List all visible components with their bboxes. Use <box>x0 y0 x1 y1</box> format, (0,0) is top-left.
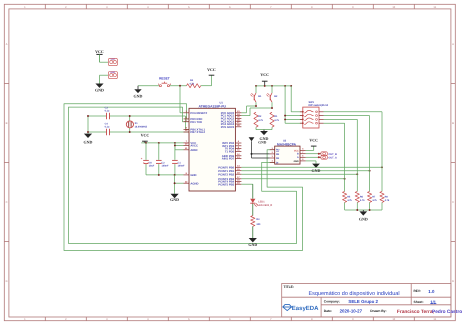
svg-text:OUT_A: OUT_A <box>328 157 337 160</box>
svg-text:PCINT5 PB5: PCINT5 PB5 <box>218 183 234 186</box>
svg-text:B: B <box>6 122 8 125</box>
svg-text:GND: GND <box>95 87 104 92</box>
svg-text:RESET: RESET <box>159 76 170 80</box>
svg-text:REV:: REV: <box>414 289 421 293</box>
svg-text:4.7k: 4.7k <box>274 119 279 122</box>
svg-text:VCC: VCC <box>309 138 318 143</box>
svg-text:GND: GND <box>258 141 266 145</box>
svg-text:T1 PD5: T1 PD5 <box>225 150 235 153</box>
svg-text:2020-10-27: 2020-10-27 <box>340 309 363 314</box>
svg-text:D: D <box>452 280 454 283</box>
svg-text:A: A <box>452 43 454 46</box>
svg-text:100nF: 100nF <box>162 165 169 168</box>
svg-text:VCC: VCC <box>95 49 104 54</box>
svg-text:C: C <box>6 201 8 204</box>
svg-text:EasyEDA: EasyEDA <box>292 305 319 312</box>
svg-text:4.7k: 4.7k <box>189 82 194 85</box>
svg-text:GND: GND <box>84 140 93 145</box>
svg-text:4.7k: 4.7k <box>360 199 365 202</box>
svg-text:16.000MHZ: 16.000MHZ <box>135 126 148 129</box>
svg-text:DI: DI <box>276 161 279 164</box>
svg-text:VCC: VCC <box>110 58 115 61</box>
svg-text:ATMEGA328P-PU: ATMEGA328P-PU <box>198 104 226 108</box>
svg-text:GND: GND <box>110 71 115 74</box>
svg-text:Date:: Date: <box>324 309 332 313</box>
svg-text:100nF: 100nF <box>178 165 185 168</box>
svg-text:Sheet:: Sheet: <box>414 300 424 304</box>
svg-text:B: B <box>452 122 454 125</box>
svg-text:PC6 RESET#: PC6 RESET# <box>190 112 207 115</box>
svg-text:PB7 XTAL2: PB7 XTAL2 <box>190 131 205 134</box>
svg-text:Company:: Company: <box>324 299 340 303</box>
svg-text:4.7k: 4.7k <box>372 199 377 202</box>
svg-text:GND: GND <box>170 197 179 202</box>
svg-text:LED-0603_R: LED-0603_R <box>258 204 273 207</box>
svg-text:VCC: VCC <box>207 67 216 72</box>
svg-text:DIP switch(ID-04: DIP switch(ID-04 <box>309 104 329 107</box>
svg-text:PD1 TXD: PD1 TXD <box>190 121 202 124</box>
svg-text:4.7k: 4.7k <box>258 119 263 122</box>
svg-text:GND: GND <box>190 174 196 177</box>
svg-text:D: D <box>6 280 8 283</box>
svg-text:A: A <box>6 43 8 46</box>
svg-text:SELE Grupo 2: SELE Grupo 2 <box>348 299 378 304</box>
svg-text:OUT_B: OUT_B <box>328 153 337 156</box>
svg-text:RE: RE <box>276 153 280 156</box>
svg-text:PC5 ADC5: PC5 ADC5 <box>221 126 235 129</box>
svg-text:300: 300 <box>256 223 261 226</box>
svg-text:GND: GND <box>359 217 368 222</box>
svg-text:AREF: AREF <box>190 149 198 152</box>
svg-text:AVCC: AVCC <box>190 144 198 147</box>
svg-text:GND: GND <box>134 94 143 99</box>
svg-text:Esquemático do dispositivo ind: Esquemático do dispositivo individual <box>308 290 399 297</box>
svg-text:RO: RO <box>276 149 280 152</box>
svg-text:DE: DE <box>276 157 280 160</box>
svg-text:0.1u: 0.1u <box>105 110 110 113</box>
svg-text:Francisco Terra,: Francisco Terra, <box>397 309 435 315</box>
svg-text:PCINT2 PB2: PCINT2 PB2 <box>218 173 234 176</box>
svg-text:GND: GND <box>294 160 299 163</box>
svg-text:10uF: 10uF <box>149 165 155 168</box>
svg-text:Drawn By:: Drawn By: <box>370 309 386 313</box>
svg-text:Pedro Castro: Pedro Castro <box>432 309 462 315</box>
svg-text:AGND: AGND <box>190 182 198 185</box>
svg-text:C: C <box>452 201 454 204</box>
svg-text:GND: GND <box>312 168 321 173</box>
svg-text:VCC: VCC <box>294 149 299 152</box>
svg-text:4.7k: 4.7k <box>347 199 352 202</box>
svg-text:0.1u: 0.1u <box>105 126 110 129</box>
svg-text:VCC: VCC <box>141 133 150 138</box>
svg-text:VCC: VCC <box>260 72 269 77</box>
svg-text:GND: GND <box>248 242 257 247</box>
svg-text:AIN1 PD7: AIN1 PD7 <box>222 158 235 161</box>
svg-text:1.0: 1.0 <box>428 289 435 294</box>
svg-text:4.7k: 4.7k <box>385 199 390 202</box>
svg-text:TITLE:: TITLE: <box>284 285 295 289</box>
